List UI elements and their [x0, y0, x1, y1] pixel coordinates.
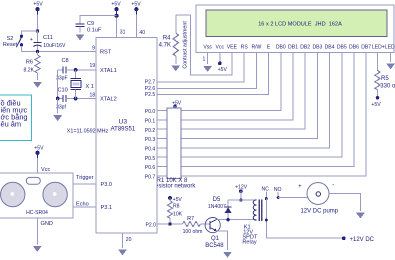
- svg-text:P2.0: P2.0: [146, 223, 157, 229]
- svg-text:+5V: +5V: [371, 102, 381, 108]
- svg-text:DB6: DB6: [349, 45, 359, 51]
- ground below C9: [76, 26, 85, 40]
- svg-text:+12V DC: +12V DC: [350, 237, 375, 243]
- svg-text:E: E: [267, 45, 271, 51]
- svg-text:RST: RST: [100, 50, 112, 56]
- wire DB0 to P0.0: [157, 53, 281, 111]
- svg-text:DB2: DB2: [300, 45, 310, 51]
- svg-text:C9: C9: [87, 21, 94, 27]
- svg-text:19: 19: [90, 63, 96, 69]
- svg-text:20: 20: [126, 237, 132, 243]
- svg-text:R5: R5: [381, 76, 389, 82]
- svg-text:10uF/16V: 10uF/16V: [43, 43, 66, 49]
- wire R/W to P2.6: [157, 53, 256, 89]
- wire DB6 to P0.6: [157, 53, 354, 167]
- wire DB7 to P0.7: [157, 53, 366, 176]
- svg-text:NC: NC: [262, 186, 270, 192]
- svg-text:100 ohm: 100 ohm: [183, 229, 203, 235]
- svg-text:Contrast adjustment: Contrast adjustment: [182, 21, 188, 69]
- MCU U3 AT89S51: [90, 30, 157, 243]
- svg-text:P0.6: P0.6: [145, 165, 156, 171]
- capacitor C8 33pF: [56, 58, 76, 81]
- wire DB3 to P0.3: [157, 53, 317, 139]
- svg-text:P2.7: P2.7: [145, 80, 156, 86]
- resistor R8 10K: [167, 198, 182, 226]
- wire DB2 to P0.2: [157, 53, 305, 130]
- svg-text:U3: U3: [119, 119, 128, 126]
- resistor R7 100 ohm: [182, 216, 210, 235]
- svg-text:+5V: +5V: [34, 145, 44, 151]
- svg-text:P0.0: P0.0: [145, 109, 156, 115]
- LCD pin 1 Vss ground: [203, 53, 212, 72]
- +5V node above HC-SR04: [34, 145, 50, 173]
- svg-text:18: 18: [90, 92, 96, 98]
- capacitor C11 10uF/16V: [30, 31, 66, 52]
- svg-text:R6: R6: [26, 59, 33, 65]
- LCD pin 15 LED+ resistor R5 330 ohm: [371, 53, 395, 108]
- ground below R4: [171, 56, 180, 71]
- relay pole to +12V DC line: [265, 199, 375, 243]
- svg-text:+5V: +5V: [111, 1, 121, 7]
- wire RS to P2.7: [157, 53, 244, 83]
- svg-text:X 1: X 1: [86, 84, 94, 90]
- svg-text:LED+: LED+: [372, 45, 385, 51]
- svg-text:C11: C11: [43, 35, 53, 41]
- svg-text:P2.5: P2.5: [145, 92, 156, 98]
- svg-text:1: 1: [203, 57, 206, 63]
- svg-text:C8: C8: [62, 58, 69, 64]
- svg-text:DB0: DB0: [276, 45, 286, 51]
- ground below HC-SR04 GND: [33, 218, 53, 252]
- svg-text:P3.0: P3.0: [101, 182, 113, 188]
- svg-text:VEE: VEE: [227, 45, 238, 51]
- svg-text:P3.1: P3.1: [101, 205, 113, 211]
- wire RST to pin 9: [22, 51, 97, 53]
- svg-text:DB7: DB7: [361, 45, 371, 51]
- relay K1 coil: [242, 199, 261, 245]
- wire XTAL2 pin 18: [76, 98, 96, 100]
- svg-text:DB4: DB4: [325, 45, 335, 51]
- wire Trigger to P3.0: [73, 175, 96, 184]
- svg-text:AT89S51: AT89S51: [111, 127, 136, 133]
- transistor Q1 BC548: [205, 218, 224, 249]
- svg-text:10K: 10K: [173, 211, 183, 217]
- wire collector rail: [216, 219, 256, 221]
- svg-text:+: +: [298, 184, 302, 190]
- svg-text:P0.4: P0.4: [145, 147, 156, 153]
- svg-text:+5V: +5V: [33, 1, 43, 7]
- svg-text:C10: C10: [58, 87, 68, 93]
- svg-text:+: +: [30, 37, 33, 43]
- svg-text:XTAL2: XTAL2: [100, 97, 117, 103]
- capacitor C9 0.1uF: [76, 16, 117, 34]
- svg-text:Vss: Vss: [203, 45, 212, 51]
- ground MCU pin 20: [118, 233, 127, 255]
- capacitor C10 33pf: [56, 87, 76, 110]
- svg-text:Trigger: Trigger: [76, 175, 94, 181]
- wire XTAL1 pin 19: [76, 69, 96, 71]
- LCD module U2 16x2 JHD 162A: [196, 5, 395, 53]
- svg-text:P2.6: P2.6: [145, 86, 156, 92]
- svg-text:+5V: +5V: [173, 197, 183, 203]
- relay contact NC: [262, 186, 270, 200]
- svg-text:1N4007: 1N4007: [208, 204, 226, 210]
- ultrasonic module HC-SR04: [0, 173, 73, 218]
- ground from pump: [329, 194, 365, 219]
- wire Echo to P3.1: [73, 201, 96, 207]
- wire relay top rail: [228, 199, 256, 201]
- +5V node pin 31: [111, 1, 121, 37]
- crystal X1: [71, 68, 94, 100]
- svg-text:D5: D5: [213, 197, 221, 203]
- wire caps to ground rail: [53, 70, 62, 121]
- svg-text:Vcc: Vcc: [216, 45, 225, 51]
- svg-text:-: -: [332, 182, 334, 188]
- svg-text:16 x 2 LCD MODULE JHD 162A: 16 x 2 LCD MODULE JHD 162A: [258, 21, 342, 27]
- svg-text:40: 40: [139, 30, 145, 36]
- svg-text:P0.3: P0.3: [145, 137, 156, 143]
- svg-text:Reset: Reset: [3, 42, 18, 48]
- diode D5 1N4007: [208, 197, 232, 221]
- LCD pin 2 Vcc +5V: [218, 53, 228, 73]
- +5V node pin 40: [131, 1, 141, 37]
- ground below Q1 emitter: [216, 231, 232, 258]
- motor 12V DC pump: [298, 182, 339, 214]
- svg-text:P0.2: P0.2: [145, 128, 156, 134]
- svg-text:R/W: R/W: [251, 45, 261, 51]
- svg-text:8.2K: 8.2K: [24, 67, 35, 73]
- svg-text:Echo: Echo: [76, 201, 89, 207]
- svg-text:330 oh: 330 oh: [380, 84, 395, 90]
- svg-text:+5V: +5V: [131, 1, 141, 7]
- svg-text:R8: R8: [173, 203, 180, 209]
- svg-text:RS: RS: [241, 45, 249, 51]
- svg-text:12V DC pump: 12V DC pump: [300, 208, 338, 214]
- wire P2.0 to base network: [157, 223, 182, 225]
- svg-text:Q1: Q1: [211, 236, 220, 242]
- svg-text:31: 31: [120, 30, 126, 36]
- +12V node: [235, 184, 248, 201]
- LCD pin 16 LED- ground: [386, 53, 395, 70]
- svg-text:+5V: +5V: [218, 67, 228, 73]
- wire DB4 to P0.4: [157, 53, 330, 148]
- svg-text:Relay: Relay: [242, 240, 257, 246]
- svg-text:Resistor network: Resistor network: [151, 184, 197, 190]
- relay contact NO: [274, 187, 282, 199]
- svg-text:P0.7: P0.7: [145, 175, 156, 181]
- svg-text:P0.5: P0.5: [145, 156, 156, 162]
- svg-text:DB5: DB5: [337, 45, 347, 51]
- wire VEE to contrast pot R4: [176, 15, 232, 75]
- svg-text:XTAL1: XTAL1: [100, 68, 117, 74]
- svg-text:GND: GND: [41, 221, 53, 227]
- wire DB5 to P0.5: [157, 53, 342, 158]
- pushbutton S2 Reset: [3, 31, 38, 52]
- svg-text:BC548: BC548: [205, 243, 224, 249]
- wire DB1 to P0.1: [157, 53, 293, 120]
- +5V node above R8: [168, 196, 182, 203]
- wire NO to pump: [278, 197, 307, 199]
- svg-text:0.1uF: 0.1uF: [87, 28, 102, 34]
- svg-text:P0.1: P0.1: [145, 119, 156, 125]
- resistor R4 4.7K contrast: [159, 33, 179, 56]
- resistor network R1 10K x 8: [151, 100, 197, 189]
- svg-text:êu âm: êu âm: [1, 119, 22, 128]
- svg-text:Vcc: Vcc: [41, 167, 51, 173]
- svg-text:4.7K: 4.7K: [159, 43, 171, 49]
- wire E to P2.5: [157, 53, 269, 95]
- resistor R6 8.2K: [24, 52, 41, 74]
- ground below R6: [33, 73, 42, 88]
- svg-text:R7: R7: [187, 216, 194, 222]
- svg-text:DB1: DB1: [288, 45, 298, 51]
- note box (Vietnamese title): [0, 95, 32, 141]
- svg-text:X1=11.0592 MHz: X1=11.0592 MHz: [67, 129, 109, 135]
- +5V node above reset: [33, 1, 43, 32]
- svg-text:9: 9: [92, 46, 95, 52]
- svg-text:DB3: DB3: [312, 45, 322, 51]
- svg-text:R4: R4: [163, 35, 171, 41]
- svg-text:HC-SR04: HC-SR04: [26, 210, 48, 216]
- svg-text:LED-: LED-: [385, 45, 395, 51]
